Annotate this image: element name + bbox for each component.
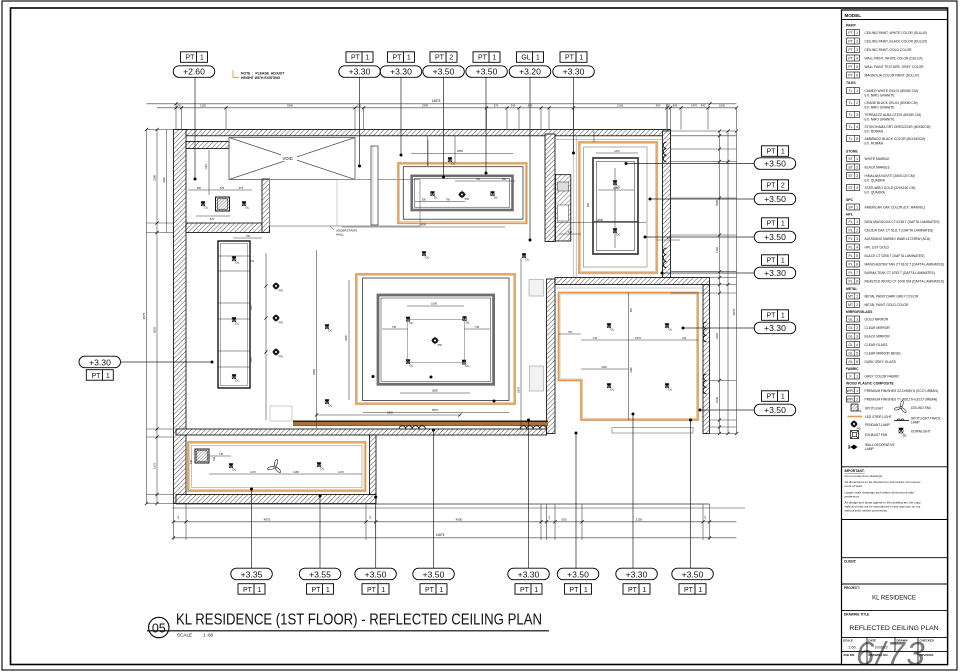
legend row PT6 xyxy=(847,72,919,78)
svg-text:450: 450 xyxy=(656,103,661,107)
downlight xyxy=(607,383,615,391)
svg-text:SPC: SPC xyxy=(846,198,854,202)
svg-text:1570: 1570 xyxy=(635,336,641,340)
svg-text:1180: 1180 xyxy=(205,164,208,170)
svg-text:GL: GL xyxy=(848,326,853,330)
svg-text:SP: SP xyxy=(848,206,853,210)
spotlight grid foyer xyxy=(216,197,230,211)
curtain symbol xyxy=(703,322,706,342)
svg-text:1470: 1470 xyxy=(691,103,697,107)
svg-text:PT: PT xyxy=(848,40,852,44)
niche left 2 xyxy=(530,366,544,391)
svg-text:1: 1 xyxy=(856,157,858,161)
svg-text:PT: PT xyxy=(520,587,530,594)
svg-text:STOKOHAMA GRT GRE02231R (60X60: STOKOHAMA GRT GRE02231R (60X60CM) xyxy=(865,125,931,129)
svg-text:EXHAUST FAN: EXHAUST FAN xyxy=(865,433,888,437)
callout PT 1 +3.30 xyxy=(380,52,422,78)
legend row SP1 xyxy=(847,204,926,210)
svg-text:1: 1 xyxy=(856,220,858,224)
svg-text:EX. NIRO GRANITE: EX. NIRO GRANITE xyxy=(865,117,896,121)
svg-text:2: 2 xyxy=(856,40,858,44)
svg-text:1: 1 xyxy=(326,587,330,594)
svg-text:PT: PT xyxy=(767,313,777,320)
legend row PT2 xyxy=(847,38,928,44)
living room LED cove xyxy=(356,274,515,404)
svg-text:+3.35: +3.35 xyxy=(241,569,263,579)
svg-text:F: F xyxy=(850,375,852,379)
svg-text:7: 7 xyxy=(856,271,858,275)
svg-text:05: 05 xyxy=(152,621,166,635)
svg-text:ment of work: ment of work xyxy=(845,484,863,488)
svg-text:710: 710 xyxy=(250,260,255,263)
svg-text:+3.50: +3.50 xyxy=(764,232,786,242)
svg-text:TL: TL xyxy=(849,137,853,141)
svg-text:550: 550 xyxy=(561,517,566,521)
svg-text:STATUARIO GOLD (320X160 CM): STATUARIO GOLD (320X160 CM) xyxy=(865,186,916,190)
downlight xyxy=(665,383,673,391)
svg-text:PL: PL xyxy=(849,229,853,233)
svg-text:340: 340 xyxy=(568,231,573,234)
svg-text:1240: 1240 xyxy=(250,305,253,311)
svg-text:PT: PT xyxy=(848,48,852,52)
callout PT 1 +3.50 xyxy=(754,218,796,243)
left dimension lines xyxy=(142,128,174,505)
svg-text:WOOD PLASTIC COMPOSITE: WOOD PLASTIC COMPOSITE xyxy=(846,382,894,386)
svg-text:PT: PT xyxy=(393,55,403,62)
legend row PT4 xyxy=(847,55,923,61)
svg-text:HPL: HPL xyxy=(846,213,853,217)
svg-text:740: 740 xyxy=(593,336,598,340)
svg-text:1: 1 xyxy=(856,206,858,210)
legend row PT1 xyxy=(847,30,928,36)
svg-text:6: 6 xyxy=(856,360,858,364)
svg-text:TL: TL xyxy=(849,113,853,117)
callout PT 1 +3.50 xyxy=(466,52,508,78)
dining ceiling outer xyxy=(403,167,523,220)
svg-text:3600: 3600 xyxy=(597,218,603,222)
dining room LED cove xyxy=(398,163,527,223)
svg-text:PT: PT xyxy=(367,587,377,594)
svg-text:2145: 2145 xyxy=(617,103,623,107)
downlight xyxy=(406,359,414,367)
svg-text:1850: 1850 xyxy=(312,369,316,375)
svg-text:DOWNLIGHT: DOWNLIGHT xyxy=(911,430,931,434)
svg-text:1: 1 xyxy=(579,55,583,62)
curtain symbol xyxy=(663,142,666,162)
curtain symbol xyxy=(663,248,666,268)
svg-text:5: 5 xyxy=(856,137,858,141)
svg-text:1: 1 xyxy=(781,394,785,401)
svg-text:8: 8 xyxy=(856,280,858,284)
svg-text:PT: PT xyxy=(684,587,694,594)
callout bottom +3.30 xyxy=(616,568,658,594)
svg-text:5870: 5870 xyxy=(432,408,438,412)
svg-text:KL RESIDENCE (1ST FLOOR) - REF: KL RESIDENCE (1ST FLOOR) - REFLECTED CEI… xyxy=(176,612,542,629)
svg-text:2855: 2855 xyxy=(457,149,463,153)
legend row F1 xyxy=(847,373,900,379)
svg-text:1: 1 xyxy=(856,295,858,299)
svg-text:+3.55: +3.55 xyxy=(309,569,331,579)
svg-text:1: 1 xyxy=(856,89,858,93)
svg-text:BLACK MARBLE: BLACK MARBLE xyxy=(865,165,891,169)
svg-text:PT: PT xyxy=(767,183,777,190)
legend row PL2 xyxy=(847,227,934,233)
svg-text:1340: 1340 xyxy=(715,247,719,253)
svg-text:PT: PT xyxy=(478,55,488,62)
pendant lamp xyxy=(272,282,284,292)
void opening with cross xyxy=(229,138,355,180)
svg-text:+2.60: +2.60 xyxy=(183,67,205,77)
svg-text:TL: TL xyxy=(849,125,853,129)
legend row TL5 xyxy=(847,136,926,146)
svg-text:ST: ST xyxy=(848,186,852,190)
downlight xyxy=(665,323,673,331)
svg-text:1: 1 xyxy=(642,587,646,594)
svg-text:940: 940 xyxy=(587,202,590,207)
svg-text:PREMIUM FINISHES TT-W5117H (EC: PREMIUM FINISHES TT-W5117H (ECO URBAN) xyxy=(865,397,938,401)
svg-text:1850: 1850 xyxy=(387,411,393,415)
svg-text:1165: 1165 xyxy=(293,470,299,474)
svg-text:SCALE: SCALE xyxy=(177,633,192,638)
svg-text:CECIDA OAK CT 5111 T (DAFTA LA: CECIDA OAK CT 5111 T (DAFTA LAMINATES) xyxy=(865,228,934,232)
downlight xyxy=(232,374,240,382)
callout PT 2 +3.50 xyxy=(754,180,796,205)
svg-text:1: 1 xyxy=(781,313,785,320)
top extension lines xyxy=(176,104,737,130)
svg-text:+3.50: +3.50 xyxy=(682,569,704,579)
legend row WPC1 xyxy=(847,388,938,394)
study ceiling mid xyxy=(584,147,648,267)
svg-text:LAMP: LAMP xyxy=(865,447,874,451)
svg-text:PL: PL xyxy=(849,280,853,284)
svg-text:9875: 9875 xyxy=(142,312,146,319)
svg-text:MODEL: MODEL xyxy=(845,13,862,18)
legend row MT1 xyxy=(847,293,919,299)
svg-text:Do not scale from drawings: Do not scale from drawings xyxy=(845,474,883,478)
legend row TL2 xyxy=(847,100,918,110)
curtain symbol xyxy=(520,426,546,429)
svg-text:PT: PT xyxy=(848,74,852,78)
svg-text:1: 1 xyxy=(439,587,443,594)
svg-text:+3.50: +3.50 xyxy=(476,67,498,77)
svg-text:1: 1 xyxy=(781,221,785,228)
legend row PL7 xyxy=(847,270,935,276)
counter outline xyxy=(270,406,292,421)
svg-text:WHITE MARBLE: WHITE MARBLE xyxy=(865,157,891,161)
svg-text:2150: 2150 xyxy=(636,517,643,521)
legend row TL4 xyxy=(847,124,931,134)
svg-text:4: 4 xyxy=(856,343,858,347)
svg-text:1135: 1135 xyxy=(200,103,206,107)
svg-text:740: 740 xyxy=(682,336,687,340)
wall foyer bottom xyxy=(186,223,263,233)
wall understairs vertical xyxy=(262,179,270,233)
svg-text:IMPORTANT:: IMPORTANT: xyxy=(845,469,865,473)
downlight xyxy=(232,317,240,325)
svg-text:1: 1 xyxy=(534,587,538,594)
svg-text:1500: 1500 xyxy=(431,302,437,306)
svg-text:PT: PT xyxy=(425,587,435,594)
pendant lamp xyxy=(458,191,470,201)
svg-text:PT: PT xyxy=(848,31,852,35)
svg-text:EX. NIRO GRANITE: EX. NIRO GRANITE xyxy=(865,105,896,109)
svg-text:+3.50: +3.50 xyxy=(365,569,387,579)
legend row GL6 xyxy=(847,359,897,365)
svg-text:340: 340 xyxy=(667,237,672,240)
svg-text:SPOTLIGHT: SPOTLIGHT xyxy=(865,407,883,411)
downlight xyxy=(317,462,325,470)
svg-text:345: 345 xyxy=(511,103,516,107)
svg-text:4: 4 xyxy=(856,125,858,129)
downlight xyxy=(406,317,414,325)
svg-text:1340: 1340 xyxy=(601,366,607,369)
svg-text:4500: 4500 xyxy=(456,517,463,521)
svg-text:3: 3 xyxy=(856,335,858,339)
downlight xyxy=(613,180,621,188)
svg-text:3: 3 xyxy=(856,48,858,52)
legend row PL5 xyxy=(847,253,925,259)
legend row WPC2 xyxy=(847,396,938,402)
svg-text:1: 1 xyxy=(698,587,702,594)
svg-text:WALL PAINT, WHITE COLOR (DULUX: WALL PAINT, WHITE COLOR (DULUX) xyxy=(865,56,923,60)
svg-text:1 :60: 1 :60 xyxy=(203,633,214,638)
svg-text:4: 4 xyxy=(856,246,858,250)
callout bottom +3.50 xyxy=(355,568,397,594)
svg-text:CLIENT:: CLIENT: xyxy=(844,560,856,564)
svg-text:METAL PAINT GOLD COLOR: METAL PAINT GOLD COLOR xyxy=(865,303,909,307)
svg-text:1000: 1000 xyxy=(715,397,719,403)
svg-text:2390: 2390 xyxy=(153,175,157,181)
svg-text:2: 2 xyxy=(856,326,858,330)
svg-text:1: 1 xyxy=(781,149,785,156)
svg-text:DARK GREY GLASS: DARK GREY GLASS xyxy=(865,360,897,364)
scale/date row xyxy=(843,637,934,651)
legend row PL3 xyxy=(847,236,931,242)
svg-text:950: 950 xyxy=(630,307,633,312)
svg-text:PAINT: PAINT xyxy=(846,24,857,28)
svg-text:MAGNOLIA COLOR PAINT (DULUX): MAGNOLIA COLOR PAINT (DULUX) xyxy=(865,73,919,77)
legend row PL8 xyxy=(847,278,945,284)
svg-text:1: 1 xyxy=(856,389,858,393)
svg-text:2: 2 xyxy=(449,55,453,62)
svg-text:785: 785 xyxy=(476,178,481,181)
svg-text:1280: 1280 xyxy=(613,187,619,190)
svg-text:PT: PT xyxy=(186,55,196,62)
legend row PL4 xyxy=(847,244,890,250)
svg-text:+3.30: +3.30 xyxy=(563,67,585,77)
callout PT 2 +3.50 xyxy=(423,52,465,78)
svg-text:570: 570 xyxy=(494,103,499,107)
svg-text:+3.30: +3.30 xyxy=(349,67,371,77)
legend row ST4 xyxy=(847,185,916,195)
svg-text:PL: PL xyxy=(849,263,853,267)
wood bulkhead band xyxy=(293,421,548,425)
pendant lamp xyxy=(272,348,284,358)
svg-text:DL: DL xyxy=(903,433,908,437)
right dimension lines xyxy=(671,129,739,435)
svg-text:2: 2 xyxy=(856,303,858,307)
svg-text:4: 4 xyxy=(856,57,858,61)
svg-text:2280: 2280 xyxy=(163,177,166,183)
svg-text:500: 500 xyxy=(422,199,427,202)
legend row GL5 xyxy=(847,350,902,356)
svg-text:PL: PL xyxy=(849,220,853,224)
living ceiling tray xyxy=(378,295,494,384)
svg-text:CAMEO WHITE GKL01 (80X80 CM): CAMEO WHITE GKL01 (80X80 CM) xyxy=(865,89,919,93)
svg-text:3600: 3600 xyxy=(420,223,426,227)
svg-text:preference: preference xyxy=(845,494,860,498)
svg-text:JOB NO.: JOB NO. xyxy=(843,653,855,657)
svg-text:5: 5 xyxy=(856,352,858,356)
wall bedroom top xyxy=(555,278,710,285)
svg-text:700: 700 xyxy=(568,331,573,334)
svg-text:PT: PT xyxy=(767,394,777,401)
study ceiling tray xyxy=(593,158,638,254)
svg-text:500: 500 xyxy=(197,187,202,190)
downlight xyxy=(325,399,333,407)
downlight xyxy=(462,360,470,368)
svg-text:+3.50: +3.50 xyxy=(764,159,786,169)
svg-text:1: 1 xyxy=(381,587,385,594)
svg-text:ST: ST xyxy=(848,157,852,161)
svg-text:2: 2 xyxy=(856,229,858,233)
recess in bedroom wall xyxy=(612,428,693,434)
legend row PL6 xyxy=(847,261,944,267)
svg-text:+3.50: +3.50 xyxy=(423,569,445,579)
svg-text:4: 4 xyxy=(856,186,858,190)
job no row xyxy=(843,652,933,665)
svg-text:HIMALAYA NOVITI (280X120 CM): HIMALAYA NOVITI (280X120 CM) xyxy=(865,174,915,178)
svg-text:5: 5 xyxy=(856,254,858,258)
svg-text:1375: 1375 xyxy=(153,463,157,469)
curtain symbol xyxy=(703,374,706,394)
svg-text:1: 1 xyxy=(257,587,261,594)
legend row GL2 xyxy=(847,325,891,331)
wall dining-east partition xyxy=(545,134,555,242)
wall center bottom xyxy=(176,429,547,435)
tall cabinet unit xyxy=(218,241,250,388)
downlight xyxy=(422,251,430,259)
svg-text:4875: 4875 xyxy=(264,517,271,521)
sidebar frame xyxy=(842,10,948,665)
svg-text:+3.30: +3.30 xyxy=(626,569,648,579)
svg-text:1: 1 xyxy=(856,375,858,379)
downlight xyxy=(325,324,333,332)
svg-text:EX. ROMAN: EX. ROMAN xyxy=(865,141,884,145)
svg-text:750: 750 xyxy=(246,235,251,238)
svg-text:NEW MAGNOLIA CT 6138 T (DAFTA: NEW MAGNOLIA CT 6138 T (DAFTA LAMINATES) xyxy=(865,220,940,224)
svg-text:GREY COLOR FABRIC: GREY COLOR FABRIC xyxy=(865,374,900,378)
svg-text:6: 6 xyxy=(856,263,858,267)
spotlight grid family xyxy=(195,449,209,463)
svg-text:1470: 1470 xyxy=(614,150,620,153)
legend row PT5 xyxy=(847,64,925,70)
top dimension lines xyxy=(147,99,739,109)
svg-text:TILES: TILES xyxy=(846,81,856,85)
svg-text:CHANE BLACK GKL04 (80X80 CM): CHANE BLACK GKL04 (80X80 CM) xyxy=(865,101,918,105)
svg-text:340: 340 xyxy=(701,103,706,107)
svg-text:575: 575 xyxy=(220,187,225,190)
svg-text:CLEAR MIRROR: CLEAR MIRROR xyxy=(865,326,891,330)
svg-text:ALESSANO MARMO WAW 14723RW (AC: ALESSANO MARMO WAW 14723RW (ACA) xyxy=(865,237,931,241)
svg-text:450: 450 xyxy=(213,456,216,461)
curtain symbol xyxy=(399,426,425,429)
ceiling fan xyxy=(267,459,281,473)
svg-text:735: 735 xyxy=(219,453,224,456)
wall bedroom right exterior xyxy=(703,285,710,434)
svg-text:3: 3 xyxy=(856,113,858,117)
callout PT 1 +3.50 xyxy=(754,146,796,170)
downlight xyxy=(229,463,237,471)
legend row GL1 xyxy=(847,316,889,322)
downlight xyxy=(607,323,615,331)
pendant lamp xyxy=(272,314,284,324)
svg-text:+3.20: +3.20 xyxy=(519,67,541,77)
svg-text:3230: 3230 xyxy=(345,335,348,341)
svg-text:+3.30: +3.30 xyxy=(390,67,412,77)
svg-text:9875: 9875 xyxy=(732,308,736,315)
svg-text:+3.50: +3.50 xyxy=(433,67,455,77)
svg-text:without prior written permissi: without prior written permission xyxy=(845,508,888,512)
svg-text:1: 1 xyxy=(536,55,540,62)
svg-text:ST: ST xyxy=(848,174,852,178)
svg-text:1: 1 xyxy=(492,55,496,62)
shaft xyxy=(555,175,570,241)
svg-text:HPL LIST GOLD: HPL LIST GOLD xyxy=(865,245,890,249)
svg-text:PL: PL xyxy=(849,271,853,275)
svg-text:GL: GL xyxy=(848,318,853,322)
svg-text:1170: 1170 xyxy=(250,470,256,474)
downlight xyxy=(613,228,621,236)
wall family room right xyxy=(370,435,377,495)
svg-text:TL: TL xyxy=(849,101,853,105)
svg-text:DRAWING TITLE: DRAWING TITLE xyxy=(844,613,869,617)
svg-text:FABRIC: FABRIC xyxy=(846,367,859,371)
svg-text:GL: GL xyxy=(848,360,853,364)
svg-text:HEIGHT WITH EXISTING: HEIGHT WITH EXISTING xyxy=(241,76,281,80)
study interior face lines xyxy=(572,136,574,278)
downlight xyxy=(462,316,470,324)
svg-text:WPC: WPC xyxy=(847,389,855,393)
wall foyer top band xyxy=(186,142,229,149)
svg-text:MT: MT xyxy=(848,303,853,307)
svg-text:745: 745 xyxy=(475,326,480,329)
svg-text:SCALE: SCALE xyxy=(843,639,853,643)
svg-text:TL: TL xyxy=(849,89,853,93)
svg-text:PT: PT xyxy=(565,55,575,62)
svg-text:CEILING PAINT, BLACK COLOR (DU: CEILING PAINT, BLACK COLOR (DULUX) xyxy=(865,39,928,43)
svg-text:PL: PL xyxy=(849,254,853,258)
svg-text:MIRROR/GLASS: MIRROR/GLASS xyxy=(846,310,873,314)
svg-text:14875: 14875 xyxy=(436,533,445,537)
svg-text:130: 130 xyxy=(176,103,181,107)
svg-text:DL: DL xyxy=(859,409,863,413)
wall bedroom west partition xyxy=(547,279,556,434)
svg-text:PT: PT xyxy=(243,587,253,594)
callout leader lines xyxy=(121,77,754,568)
study room LED cove xyxy=(579,142,657,273)
svg-text:CEILING FAN: CEILING FAN xyxy=(911,406,932,410)
family room LED cove xyxy=(188,442,366,491)
svg-text:REASTED WOOD CT 6706 DM (DAFTA: REASTED WOOD CT 6706 DM (DAFTA LAMINATES… xyxy=(865,279,945,283)
svg-text:1: 1 xyxy=(365,55,369,62)
legend row TL1 xyxy=(847,88,919,98)
downlight xyxy=(490,191,498,199)
svg-text:PT: PT xyxy=(848,65,852,69)
callout bottom +3.35 xyxy=(231,568,272,594)
svg-text:EX. QUADRA: EX. QUADRA xyxy=(865,190,886,194)
callout bottom +3.50 xyxy=(413,568,455,594)
